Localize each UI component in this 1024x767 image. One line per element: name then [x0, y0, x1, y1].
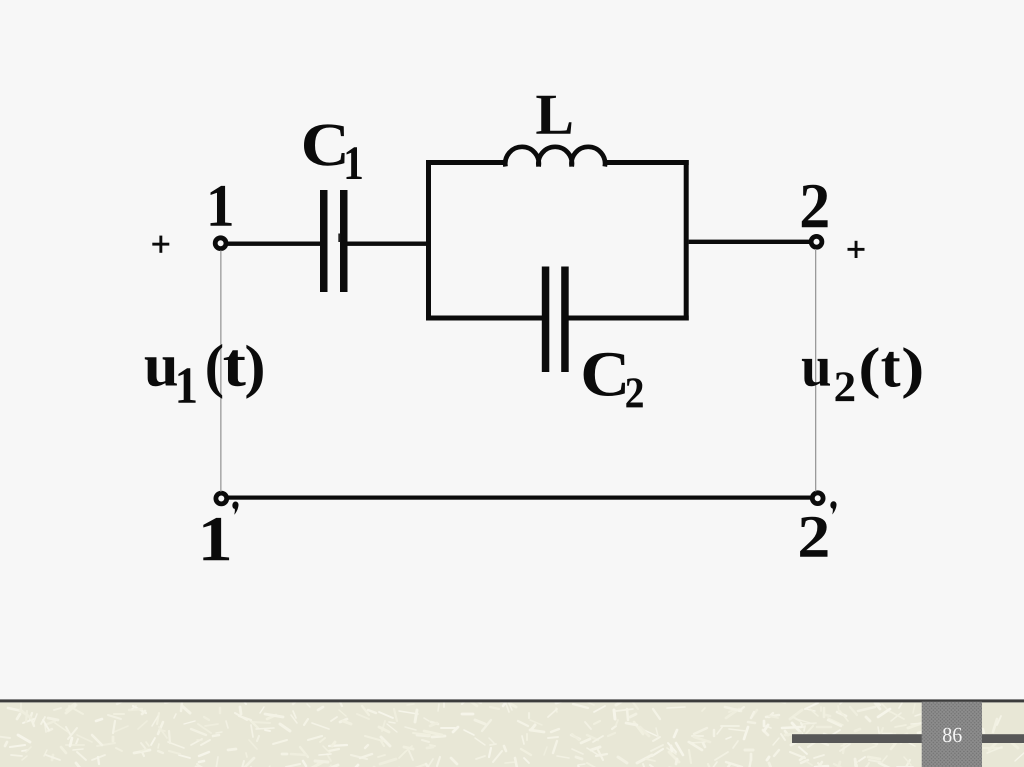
terminal 2 (top-right port node) — [811, 236, 822, 247]
terminal 1 (top-left port node) — [215, 238, 226, 249]
capacitor C1 right plate — [340, 190, 348, 292]
inductor L (three loops on top edge) — [505, 147, 605, 167]
dark bar left of page-number square — [792, 734, 922, 743]
label: terminal 1 prime — [203, 518, 229, 560]
plus sign at port 1 — [152, 236, 169, 253]
wire: tank box to terminal 2 — [689, 240, 810, 244]
label: terminal 1 — [211, 186, 232, 226]
wire: thin vertical line terminal 1 to 1' — [220, 250, 221, 491]
wire: terminal 1 to capacitor C1 — [227, 242, 320, 246]
label: terminal 2 prime — [800, 517, 827, 557]
dark bar right of page-number square — [982, 734, 1024, 743]
tank box top edge right segment — [604, 160, 688, 165]
capacitor C1 left plate — [320, 190, 328, 292]
tank box top edge left segment — [426, 160, 506, 165]
wire: capacitor C1 to tank box — [348, 242, 432, 246]
tank box left edge — [426, 160, 431, 321]
tank box right edge — [684, 160, 689, 321]
tank box bottom edge right segment — [568, 316, 689, 321]
label: u2(t) — [802, 359, 830, 386]
tank box bottom edge left segment — [426, 316, 543, 321]
wire: thin vertical line terminal 2 to 2' — [815, 249, 816, 491]
label: u1(t) — [145, 357, 177, 386]
capacitor C2 right plate — [561, 267, 569, 373]
label: L — [536, 96, 571, 134]
plus sign at port 2 — [848, 241, 865, 258]
terminal 1' (bottom-left port node) — [216, 493, 227, 504]
terminal 2' (bottom-right port node) — [812, 493, 823, 504]
label: terminal 2 — [802, 185, 828, 228]
page number 86 — [943, 728, 962, 743]
capacitor C2 left plate — [542, 267, 550, 373]
wire: bottom return 1' to 2' — [228, 496, 811, 500]
page number square — [922, 702, 982, 767]
dark separator line above strip — [0, 699, 1024, 702]
label: C1 — [304, 124, 345, 165]
label: C2 — [584, 353, 625, 396]
bottom textured strip — [0, 699, 1024, 767]
thin conductor inside C1 gap — [338, 234, 340, 243]
